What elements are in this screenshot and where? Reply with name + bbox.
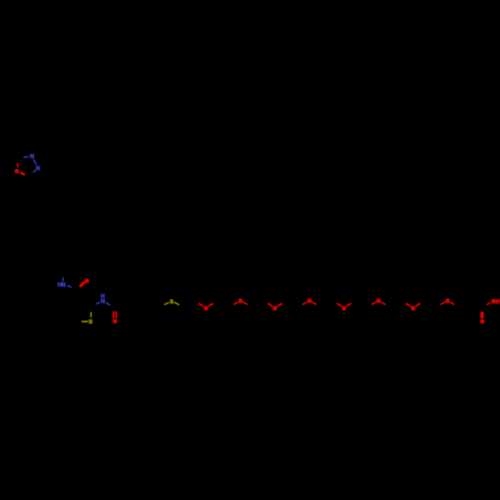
svg-text:N: N bbox=[36, 166, 40, 172]
svg-text:H: H bbox=[496, 299, 500, 305]
svg-text:N: N bbox=[30, 154, 34, 160]
svg-text:S: S bbox=[89, 319, 93, 325]
svg-text:N: N bbox=[101, 299, 105, 305]
svg-text:S: S bbox=[170, 299, 174, 305]
svg-text:N: N bbox=[62, 283, 66, 289]
